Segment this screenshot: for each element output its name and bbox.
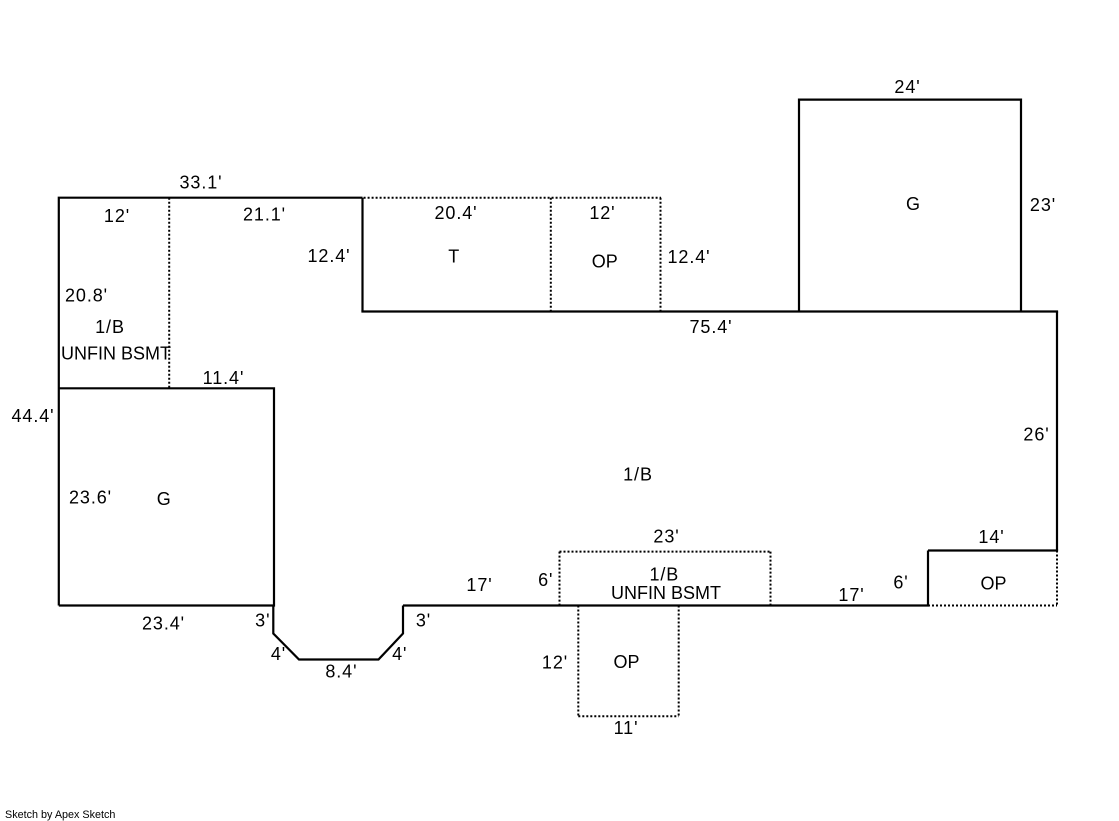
dotted wall: 12' divider in UNFIN BSMT bbox=[168, 198, 170, 388]
wall: G box upper-right (24' x 23') bbox=[799, 100, 1021, 312]
svg-text:Sketch by Apex Sketch: Sketch by Apex Sketch bbox=[5, 809, 115, 821]
svg-text:11.4': 11.4' bbox=[203, 368, 245, 388]
wall: notch (3',4',8.4',4',3') bbox=[273, 606, 403, 660]
dotted wall: top of T and OP bbox=[364, 197, 661, 199]
wall: main right edge (26') bbox=[1056, 312, 1058, 551]
svg-text:OP: OP bbox=[613, 652, 639, 672]
wall: OP top edge (14') bbox=[928, 549, 1058, 551]
svg-text:23': 23' bbox=[1030, 195, 1056, 215]
svg-text:11': 11' bbox=[614, 718, 639, 738]
svg-text:G: G bbox=[157, 489, 171, 509]
svg-text:26': 26' bbox=[1023, 425, 1049, 445]
dotted wall: right OP bottom edge bbox=[928, 605, 1057, 607]
dotted wall: bottom 1/B UNFIN BSMT box left (6') bbox=[559, 552, 561, 606]
wall: left+top perimeter of 1/B UNFIN BSMT section bbox=[59, 198, 363, 606]
svg-text:UNFIN BSMT: UNFIN BSMT bbox=[611, 583, 721, 603]
dotted wall: right OP right edge bbox=[1056, 551, 1058, 606]
svg-text:44.4': 44.4' bbox=[12, 406, 55, 426]
svg-text:4': 4' bbox=[392, 644, 407, 664]
wall: bottom edge right run (17'+23'+17') bbox=[403, 604, 929, 606]
svg-text:UNFIN BSMT: UNFIN BSMT bbox=[61, 344, 171, 364]
svg-text:1/B: 1/B bbox=[649, 565, 679, 585]
svg-text:1/B: 1/B bbox=[95, 317, 125, 337]
svg-text:3': 3' bbox=[255, 611, 270, 631]
svg-text:6': 6' bbox=[893, 573, 908, 593]
dotted wall: bottom OP box right (12') bbox=[678, 606, 680, 717]
svg-text:1/B: 1/B bbox=[623, 464, 653, 484]
svg-text:T: T bbox=[448, 246, 459, 266]
svg-text:75.4': 75.4' bbox=[690, 317, 733, 337]
dotted wall: bottom 1/B UNFIN BSMT box right (6') bbox=[770, 552, 772, 606]
svg-text:6': 6' bbox=[538, 570, 553, 590]
svg-text:12': 12' bbox=[589, 203, 615, 223]
svg-text:G: G bbox=[906, 194, 920, 214]
svg-text:14': 14' bbox=[978, 527, 1004, 547]
svg-text:33.1': 33.1' bbox=[180, 173, 223, 193]
svg-text:17': 17' bbox=[466, 575, 492, 595]
svg-text:8.4': 8.4' bbox=[325, 662, 357, 682]
svg-text:17': 17' bbox=[838, 585, 864, 605]
dotted wall: bottom OP box left (12') bbox=[577, 606, 579, 717]
dotted wall: bottom OP box bottom (11') bbox=[578, 715, 678, 717]
svg-text:21.1': 21.1' bbox=[243, 205, 286, 225]
wall: step down right (6') bbox=[927, 551, 929, 606]
svg-text:23.4': 23.4' bbox=[142, 614, 185, 634]
svg-text:4': 4' bbox=[271, 644, 286, 664]
dotted wall: bottom 1/B UNFIN BSMT box top (23') bbox=[560, 551, 771, 553]
svg-text:OP: OP bbox=[980, 574, 1006, 594]
svg-text:12.4': 12.4' bbox=[668, 247, 711, 267]
wall: T section left edge bbox=[361, 198, 363, 312]
dotted wall: OP right edge (12.4') bbox=[660, 198, 662, 312]
wall: G box lower-left (top 11.4', right 23.6', bottom 23.4') bbox=[59, 388, 274, 605]
svg-text:12': 12' bbox=[104, 206, 130, 226]
svg-text:3': 3' bbox=[416, 611, 431, 631]
svg-text:20.4': 20.4' bbox=[435, 203, 478, 223]
svg-text:23.6': 23.6' bbox=[69, 488, 112, 508]
svg-text:24': 24' bbox=[894, 77, 920, 97]
svg-text:23': 23' bbox=[653, 527, 679, 547]
svg-text:OP: OP bbox=[592, 252, 618, 272]
wall: upper section bottom (75.4') bbox=[361, 310, 1058, 312]
svg-text:12': 12' bbox=[542, 653, 568, 673]
dotted wall: divider between T and OP bbox=[550, 198, 552, 312]
svg-text:20.8': 20.8' bbox=[65, 286, 108, 306]
svg-text:12.4': 12.4' bbox=[308, 246, 351, 266]
